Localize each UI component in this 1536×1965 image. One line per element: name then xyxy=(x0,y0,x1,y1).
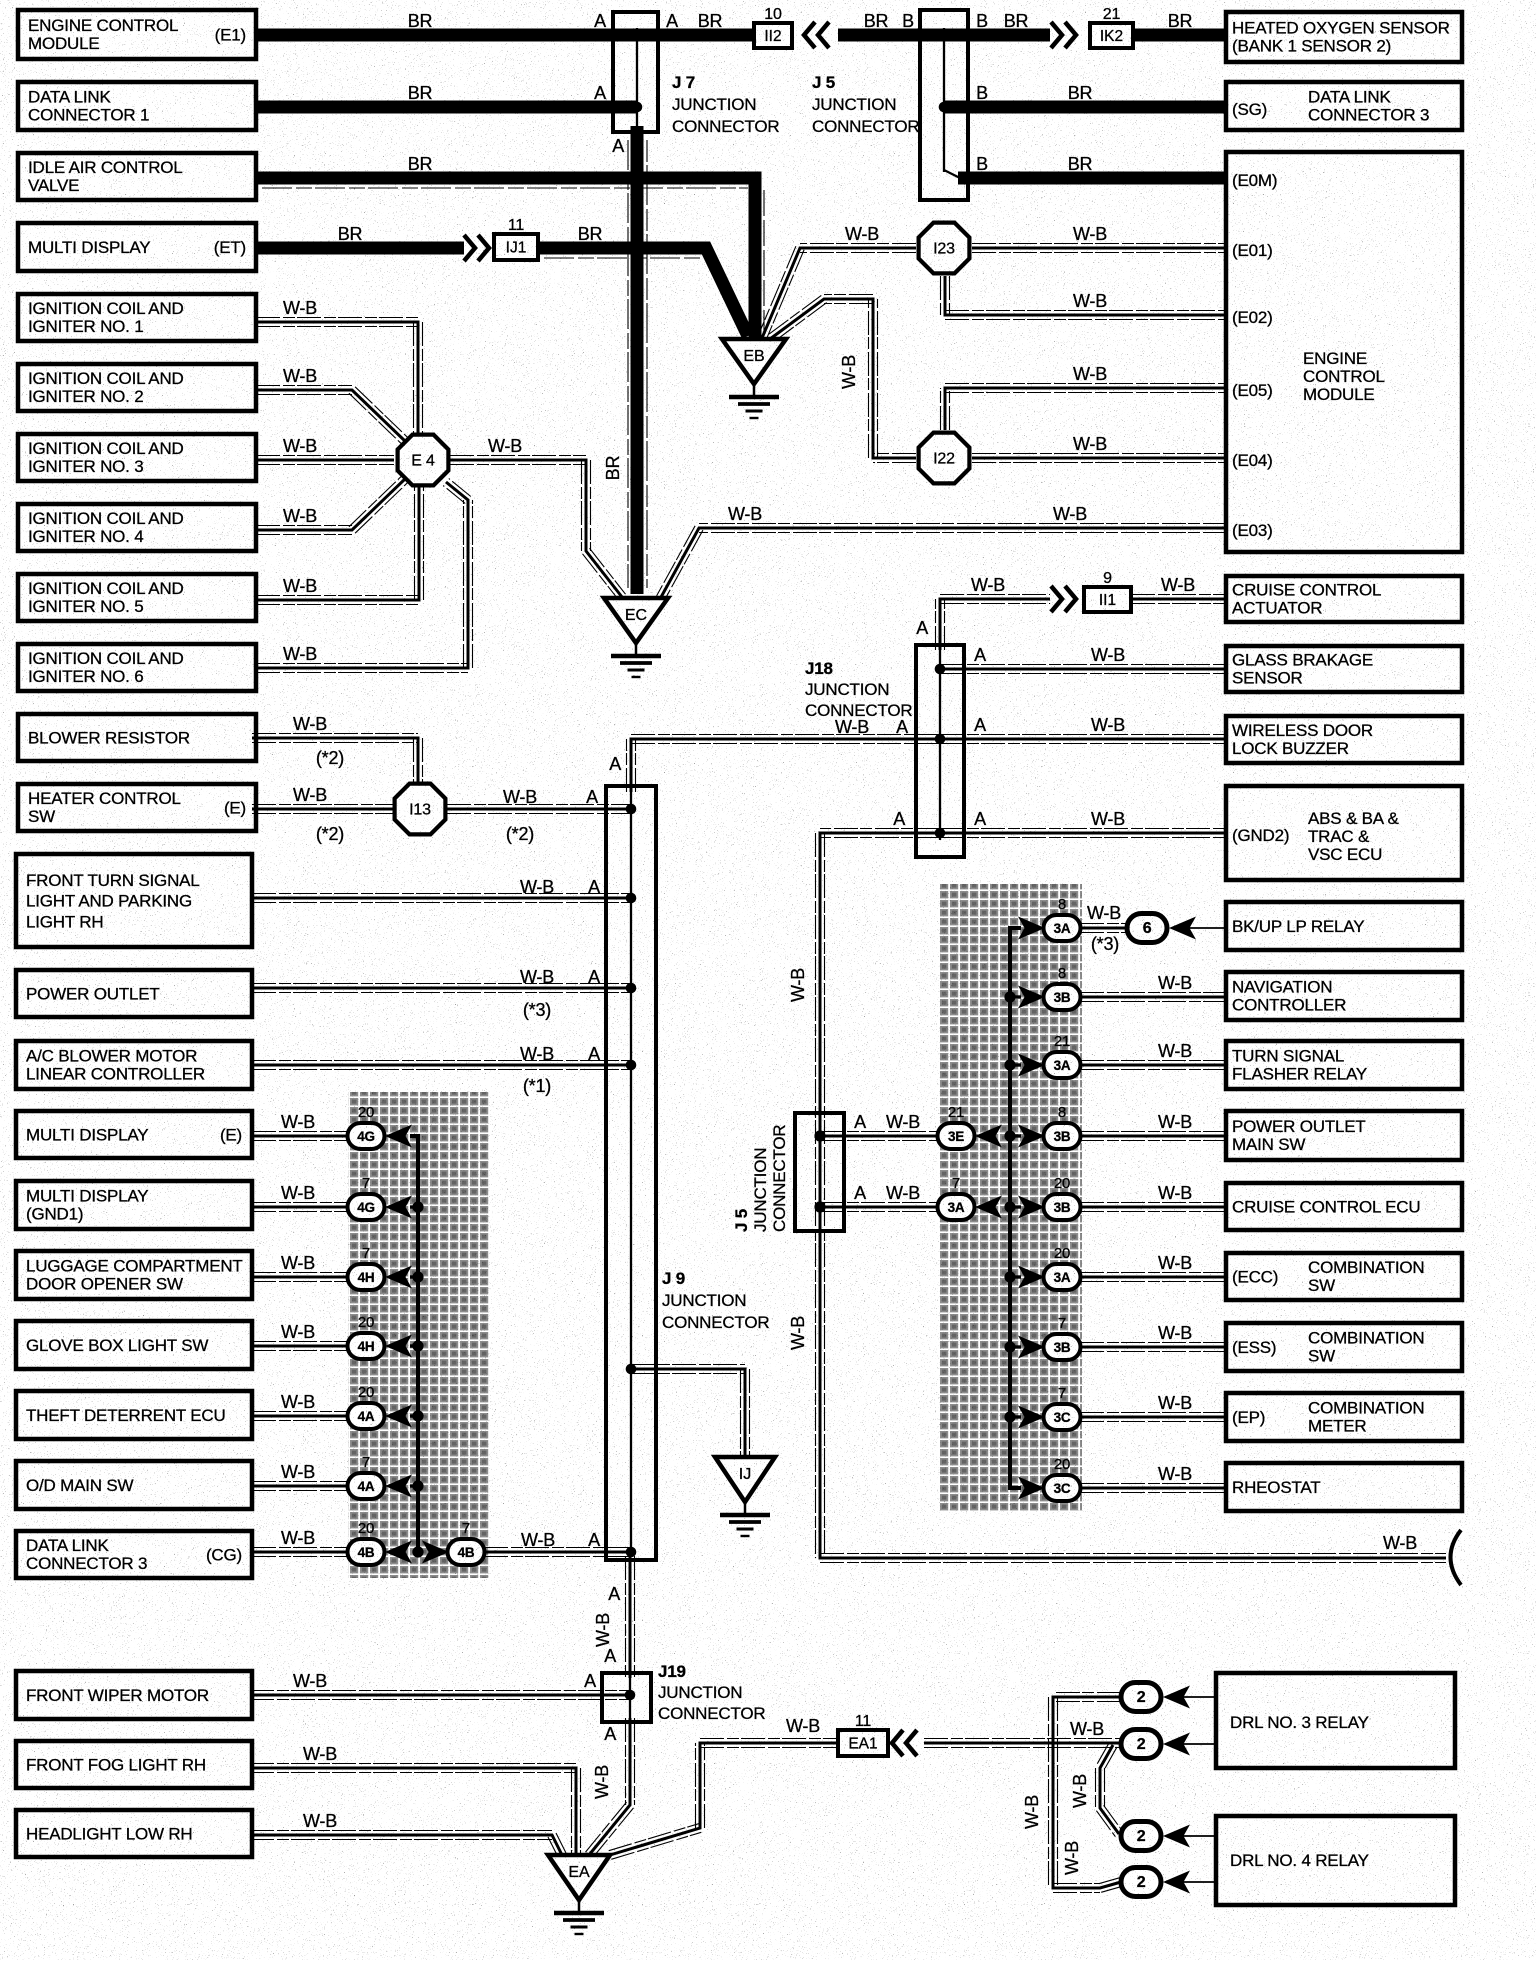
wire W-B: oval to combination meter (EP) xyxy=(1080,1413,1227,1422)
arrow into 2 (1836) xyxy=(1163,1825,1190,1848)
arrow into 4H xyxy=(385,1335,412,1358)
oval connector 4G (1136) xyxy=(348,1123,385,1149)
junction connector J19 xyxy=(602,1673,651,1722)
arrow into 2 (1882) xyxy=(1163,1871,1190,1894)
wire BR: multi display (ET) to IJ1 xyxy=(256,242,464,255)
wire W-B: J5 to oval 3A (cruise control ecu row) xyxy=(820,1203,938,1212)
wire W-B: J18 to wireless door lock buzzer xyxy=(940,735,1227,744)
component box: ENGINE CONTROL MODULE (right) xyxy=(1226,152,1462,552)
arrow into 4B right xyxy=(422,1541,449,1564)
arrow into 3B xyxy=(1018,1196,1045,1219)
companion line of multi display BR wire xyxy=(544,257,700,259)
arrow into 4B xyxy=(385,1541,412,1564)
component box: DATA LINK CONNECTOR 3 (SG) xyxy=(1226,82,1462,130)
wire W-B: oval to turn signal flasher relay xyxy=(1080,1061,1227,1070)
arrow into 3A xyxy=(1018,1266,1045,1289)
wire W-B: J18/ABS main ground wire down and right to next page xyxy=(816,829,1447,1563)
junction connector J18 xyxy=(916,645,964,857)
wire W-B: ignition coil 6 to E4 xyxy=(256,479,473,673)
component box: CRUISE CONTROL ACTUATOR xyxy=(1226,576,1462,622)
wire W-B: data link connector 3 to oval xyxy=(252,1548,349,1557)
wire W-B: I23 to ECM (E02) xyxy=(941,276,1228,320)
wire W-B: I22 to ground EB xyxy=(767,295,916,463)
wire BR: J5 to IK2 xyxy=(944,29,1050,42)
wire wire: oval 2 to DRL no.4 relay (bottom) xyxy=(1180,1881,1216,1883)
component box: MULTI DISPLAY (E) xyxy=(16,1111,252,1158)
halftone shaded area left xyxy=(348,1092,490,1578)
wire W-B: ignition coil 4 to E4 xyxy=(256,475,409,535)
component box: FRONT FOG LIGHT RH xyxy=(16,1741,252,1788)
oval connector 4B right (data link row) xyxy=(448,1539,485,1565)
component box: FRONT WIPER MOTOR xyxy=(16,1671,252,1719)
halftone shaded area right xyxy=(939,884,1082,1512)
wire W-B: I23 to ground EB xyxy=(758,244,916,340)
component box: DATA LINK CONNECTOR 1 xyxy=(18,82,256,130)
wire W-B: J18 to II1 (cruise control actuator) xyxy=(936,595,1051,651)
component box: A/C BLOWER MOTOR LINEAR CONTROLLER xyxy=(16,1041,252,1089)
octagon junction I13 xyxy=(395,784,446,835)
ground EA xyxy=(548,1855,610,1934)
component box: HEATED OXYGEN SENSOR (BANK 1 SENSOR 2) xyxy=(1226,12,1462,62)
companion line of idle air BR wire xyxy=(262,187,748,189)
component box: IGNITION COIL AND IGNITER NO. 5 xyxy=(18,574,256,621)
wire W-B: oval to power outlet main sw xyxy=(1080,1132,1227,1141)
oval connector 3E (power outlet main sw row) xyxy=(938,1123,975,1149)
octagon junction I23 xyxy=(919,223,970,274)
junction connector J5 (top) xyxy=(920,10,968,200)
component box: COMBINATION SW (ESS) xyxy=(1226,1323,1462,1371)
junction connector J9 xyxy=(606,786,656,1560)
wire W-B: power outlet to J9 xyxy=(252,984,631,993)
oval connector 3C (1417) xyxy=(1044,1404,1081,1430)
chevron connector marks after II2 xyxy=(804,22,829,48)
wire W-B: II1 to cruise control actuator xyxy=(1131,595,1227,604)
connector II2 xyxy=(754,23,792,48)
component box: IGNITION COIL AND IGNITER NO. 2 xyxy=(18,364,256,411)
wire W-B: theft deterrent ecu to oval xyxy=(252,1412,349,1421)
wire W-B: oval 4B to J9 (data link connector 3 row) xyxy=(484,1548,631,1557)
component box: WIRELESS DOOR LOCK BUZZER xyxy=(1226,716,1462,763)
wire W-B: I22 to ECM (E05) xyxy=(941,384,1228,431)
component box: GLASS BRAKAGE SENSOR xyxy=(1226,646,1462,692)
wire W-B: J9 to J19 xyxy=(626,1556,635,1678)
oval connector 3C (1488) xyxy=(1044,1475,1081,1501)
component box: TURN SIGNAL FLASHER RELAY xyxy=(1226,1041,1462,1089)
wire BR: idle air control valve to ground EB xyxy=(256,178,755,340)
wire W-B: DRL bus xyxy=(1049,1693,1123,1893)
component box: ENGINE CONTROL MODULE (E1) xyxy=(18,10,256,59)
wire W-B: a/c blower motor linear controller to J9 xyxy=(252,1061,631,1070)
oval connector 3B (997) xyxy=(1044,984,1081,1010)
wire W-B: oval to combination sw (ESS) xyxy=(1080,1343,1227,1352)
wire W-B: shaded bus right xyxy=(1010,928,1021,1488)
wire W-B: I22 to ECM (E04) xyxy=(972,454,1227,463)
oval connector 2 (1697) xyxy=(1121,1683,1161,1712)
component box: LUGGAGE COMPARTMENT DOOR OPENER SW xyxy=(16,1251,252,1299)
wire W-B: oval to combination sw (ECC) xyxy=(1080,1273,1227,1282)
arrow into 3A xyxy=(1018,1054,1045,1077)
component box: HEATER CONTROL SW (E) xyxy=(18,784,256,831)
component box: IGNITION COIL AND IGNITER NO. 3 xyxy=(18,434,256,481)
wire W-B: J18 to glass brakage sensor xyxy=(940,665,1227,674)
component box: IGNITION COIL AND IGNITER NO. 1 xyxy=(18,294,256,341)
component box: RHEOSTAT xyxy=(1226,1463,1462,1511)
component box: BLOWER RESISTOR xyxy=(18,714,256,761)
wire W-B: E4 to ground EC xyxy=(450,456,626,600)
wire BR: J5 to ECM (E0M) xyxy=(958,172,1227,185)
wire W-B: glove box light sw to oval xyxy=(252,1342,349,1351)
wire W-B: ignition coil 3 to E4 xyxy=(256,456,394,465)
wire BR: IJ1 to ground EB xyxy=(538,248,748,336)
wire W-B: ignition coil 5 to E4 xyxy=(256,486,424,605)
wire wire: oval 2 to DRL no.3 relay (bottom) xyxy=(1180,1743,1216,1745)
component box: IGNITION COIL AND IGNITER NO. 6 xyxy=(18,644,256,691)
arrow into 3C xyxy=(1018,1477,1045,1500)
arrow into 3C xyxy=(1018,1406,1045,1429)
oval connector 3B (1136) xyxy=(1044,1123,1081,1149)
oval connector 3A (1277) xyxy=(1044,1264,1081,1290)
ground IJ xyxy=(715,1457,775,1536)
wire W-B: oval 3A to connector 6 (bk/up lp relay) xyxy=(1080,924,1128,933)
component box: BK/UP LP RELAY xyxy=(1226,902,1462,950)
wire W-B: front fog light rh to ground EA xyxy=(250,1764,581,1856)
junction connector J7 xyxy=(613,12,658,132)
connector IJ1 xyxy=(494,234,538,260)
wire W-B: J19 to ground EA xyxy=(586,1718,635,1858)
wire W-B: I13 to J9 xyxy=(447,805,631,814)
component box: FRONT TURN SIGNAL LIGHT AND PARKING LIGHT RH xyxy=(16,854,252,947)
component box: POWER OUTLET MAIN SW xyxy=(1226,1111,1462,1160)
wire W-B: shaded bus left xyxy=(410,1136,418,1552)
component box: THEFT DETERRENT ECU xyxy=(16,1391,252,1439)
arrow into 3B xyxy=(1018,986,1045,1009)
component box: COMBINATION SW (ECC) xyxy=(1226,1253,1462,1300)
wire W-B: J9 to ground IJ xyxy=(631,1365,750,1458)
oval connector 4B (1552) xyxy=(348,1539,385,1565)
oval connector 4A (1416) xyxy=(348,1403,385,1429)
arrow into 3B xyxy=(1018,1336,1045,1359)
arrow into 4A xyxy=(385,1405,412,1428)
wire W-B: ECM (E03) to ground EC xyxy=(656,524,1227,602)
arrow into 4A xyxy=(385,1475,412,1498)
chevron connector marks before IK2 xyxy=(1051,22,1076,48)
component box: MULTI DISPLAY (GND1) xyxy=(16,1181,252,1229)
wire wire: oval 2 to DRL no.4 relay (top) xyxy=(1180,1835,1216,1837)
wire W-B: o/d main sw to oval xyxy=(252,1482,349,1491)
wire wire: oval 2 to DRL no.3 relay (top) xyxy=(1180,1696,1216,1698)
chevron connector marks before II1 xyxy=(1051,586,1076,612)
wire W-B: oval to navigation controller xyxy=(1080,993,1227,1002)
wire BR: engine control module (E1) to J7 xyxy=(256,29,754,42)
arrow into 4G xyxy=(385,1125,412,1148)
wire W-B: front turn signal light to J9 xyxy=(252,894,631,903)
wire BR: J7 down to ground EC xyxy=(631,126,644,594)
component box: GLOVE BOX LIGHT SW xyxy=(16,1321,252,1369)
component box: COMBINATION METER (EP) xyxy=(1226,1393,1462,1441)
wire W-B: J5 to oval 3E (power outlet main sw row) xyxy=(820,1132,938,1141)
component box: IGNITION COIL AND IGNITER NO. 4 xyxy=(18,504,256,551)
chevron connector marks before IJ1 xyxy=(464,235,489,261)
oval connector 4G (1207) xyxy=(348,1194,385,1220)
wire W-B: front wiper motor to J19 xyxy=(250,1691,630,1700)
arrow into 3A xyxy=(975,1196,1002,1219)
wire W-B: oval to rheostat xyxy=(1080,1484,1227,1493)
oval connector 6 (bk/up lp relay) xyxy=(1127,914,1167,943)
arrow into 6 xyxy=(1169,917,1196,940)
wire BR: IK2 to heated oxygen sensor xyxy=(1133,29,1227,42)
component box: POWER OUTLET xyxy=(16,970,252,1017)
component box: HEADLIGHT LOW RH xyxy=(16,1810,252,1857)
component box: NAVIGATION CONTROLLER xyxy=(1226,972,1462,1020)
wire W-B: ignition coil 1 to E4 xyxy=(256,318,423,435)
octagon junction E4 xyxy=(398,435,449,486)
arrow into 3E xyxy=(975,1125,1002,1148)
oval connector 3A (928) xyxy=(1044,915,1081,941)
wire W-B: blower resistor to I13 xyxy=(252,734,423,783)
wire BR: II2 to J5 xyxy=(838,29,944,42)
wire W-B: I23 to ECM (E01) xyxy=(972,244,1227,253)
component box: O/D MAIN SW xyxy=(16,1461,252,1509)
wire W-B: heater control sw to I13 xyxy=(252,805,393,814)
oval connector 3A (1065) xyxy=(1044,1052,1081,1078)
connector IK2 xyxy=(1090,23,1133,48)
component box: DRL NO. 3 RELAY xyxy=(1216,1673,1455,1768)
component box: IDLE AIR CONTROL VALVE xyxy=(18,153,256,200)
oval connector 4H (1277) xyxy=(348,1264,385,1290)
wire BR: data link connector 1 to J7 xyxy=(256,101,637,114)
wire W-B: J9 to J18 (buzzer row) xyxy=(627,735,941,793)
oval connector 4H (1346) xyxy=(348,1333,385,1359)
wire W-B: J18 to ABS & BA & TRAC & VSC ECU (GND2) xyxy=(940,829,1227,838)
arrow into 4G xyxy=(385,1196,412,1219)
oval connector 2 (1882) xyxy=(1121,1868,1161,1897)
arrow into 2 (1744) xyxy=(1163,1733,1190,1756)
oval connector 2 (1836) xyxy=(1121,1822,1161,1851)
wire W-B: headlight low rh to ground EA xyxy=(250,1831,566,1858)
wire W-B: oval to cruise control ecu xyxy=(1080,1203,1227,1212)
component box: ABS & BA & TRAC & VSC ECU (GND2) xyxy=(1226,786,1462,880)
component box: MULTI DISPLAY (ET) xyxy=(18,223,256,271)
wire W-B: ground EA to EA1 xyxy=(609,1739,838,1860)
wire wire: connector 6 to bk/up lp relay xyxy=(1184,927,1227,929)
chevron connector marks after EA1 xyxy=(892,1730,917,1756)
wire BR: J5 to data link connector 3 (SG) xyxy=(944,101,1227,114)
arrow into 3A xyxy=(1018,917,1045,940)
oval connector 2 (1744) xyxy=(1121,1730,1161,1759)
component box: DATA LINK CONNECTOR 3 (CG) xyxy=(16,1531,252,1578)
wire W-B: ignition coil 2 to E4 xyxy=(256,386,409,446)
arrow into 4H xyxy=(385,1266,412,1289)
junction connector J5 (middle) xyxy=(795,1113,844,1231)
octagon junction I22 xyxy=(919,433,970,484)
continuation hook of W-B wire to next page xyxy=(1451,1530,1462,1585)
wire W-B: multi display (GND1) to oval xyxy=(252,1203,349,1212)
wire W-B: luggage compartment door opener sw to oval xyxy=(252,1273,349,1282)
ground EC xyxy=(604,598,668,677)
oval connector 3A (cruise control ecu row) xyxy=(938,1194,975,1220)
companion lines of J7 vertical BR wire xyxy=(627,140,629,588)
oval connector 3B (1207) xyxy=(1044,1194,1081,1220)
oval connector 4A (1486) xyxy=(348,1473,385,1499)
wire W-B: multi display (E) to oval xyxy=(252,1132,349,1141)
connector II1 xyxy=(1084,587,1131,612)
arrow into 2 (1697) xyxy=(1163,1686,1190,1709)
arrow into 3B xyxy=(1018,1125,1045,1148)
wire W-B: branch to DRL no.4 relay upper connector xyxy=(1096,1743,1123,1837)
component box: CRUISE CONTROL ECU xyxy=(1226,1183,1462,1230)
junction dots on main wire inside J5 middle xyxy=(814,1130,825,1141)
connector EA1 xyxy=(838,1730,888,1756)
oval connector 3B (1347) xyxy=(1044,1334,1081,1360)
component box: DRL NO. 4 RELAY xyxy=(1216,1816,1455,1905)
wire W-B: EA1 to DRL bus xyxy=(924,1739,1121,1748)
ground EB xyxy=(722,339,786,418)
